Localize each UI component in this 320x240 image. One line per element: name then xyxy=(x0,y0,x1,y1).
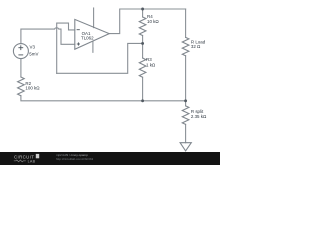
wire R2 bottom + ground rail xyxy=(21,96,186,101)
logo white box mark xyxy=(36,154,39,158)
junction node R4/R3 feedback tap xyxy=(141,42,144,45)
resistor R2 100k xyxy=(18,77,25,96)
wire R4 bottom to junction xyxy=(142,36,144,44)
svg-text:100 kΩ: 100 kΩ xyxy=(25,86,40,91)
wire R3 bottom xyxy=(142,77,144,101)
svg-text:http://circuitlab.com/c/9c3b3: http://circuitlab.com/c/9c3b3 xyxy=(56,157,94,161)
junction node R4 top xyxy=(141,8,144,11)
resistor R4 10k xyxy=(139,17,146,36)
svg-text:LAB: LAB xyxy=(28,159,36,163)
op-amp OA1 triangle xyxy=(75,19,109,49)
V3 plus sign xyxy=(18,30,80,55)
ground arrow xyxy=(180,143,191,151)
svg-text:1 kΩ: 1 kΩ xyxy=(146,62,156,67)
logo resistor squiggle xyxy=(14,160,26,162)
resistor R split 2.35k xyxy=(182,106,189,125)
wire V3 top to op-amp plus input (with hop over feedback wire) xyxy=(21,28,75,44)
junction node R3 bottom rail xyxy=(141,99,144,102)
op-amp minus input sign xyxy=(77,29,80,31)
junction node R Load / R split xyxy=(184,99,187,102)
wire V3 bottom to R2 xyxy=(20,59,22,77)
wire R Load bottom xyxy=(185,56,187,101)
wire op-amp output to top rail xyxy=(109,9,185,34)
op-amp plus input sign xyxy=(77,43,80,45)
svg-text:TL062: TL062 xyxy=(81,36,94,41)
svg-text:5mV: 5mV xyxy=(29,51,38,56)
wire R Load top xyxy=(185,9,187,37)
wire feedback staircase to minus input xyxy=(57,23,75,73)
watermark banner xyxy=(0,152,220,165)
wire R4 top xyxy=(142,9,144,17)
wire R3 top xyxy=(142,43,144,58)
resistor R3 1k xyxy=(139,58,146,77)
CircuitLab logo text xyxy=(14,154,36,163)
resistor R Load 32 ohm xyxy=(182,37,189,55)
voltage source V3 xyxy=(13,44,28,59)
op-amp OA1 power stub bottom xyxy=(92,41,94,52)
svg-text:10 kΩ: 10 kΩ xyxy=(147,19,159,24)
op-amp OA1 power stub top xyxy=(93,8,95,28)
svg-text:32 Ω: 32 Ω xyxy=(191,44,201,49)
svg-text:2.35 kΩ: 2.35 kΩ xyxy=(191,114,207,119)
wire R split top xyxy=(185,101,187,106)
wire feedback bottom rail xyxy=(57,43,143,73)
svg-text:V3: V3 xyxy=(30,44,36,49)
V3 minus sign xyxy=(18,54,23,56)
wire R split bottom to ground xyxy=(185,124,187,142)
